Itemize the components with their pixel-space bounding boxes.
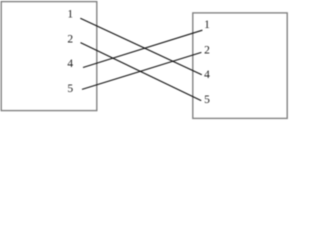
svg-text:5: 5 [67,83,73,95]
wire left pin 5 to right pin 2 [82,52,201,89]
svg-text:2: 2 [67,33,73,45]
wire left pin 4 to right pin 1 [83,30,202,67]
left connector block [1,2,97,111]
svg-text:1: 1 [204,19,210,31]
right connector block [193,13,287,119]
svg-text:1: 1 [67,9,73,21]
svg-text:5: 5 [204,94,210,106]
wire left pin 1 to right pin 4 [80,18,202,74]
svg-text:4: 4 [67,58,73,70]
wire left pin 2 to right pin 5 [81,43,202,101]
svg-text:2: 2 [204,45,210,57]
svg-text:4: 4 [204,69,210,81]
